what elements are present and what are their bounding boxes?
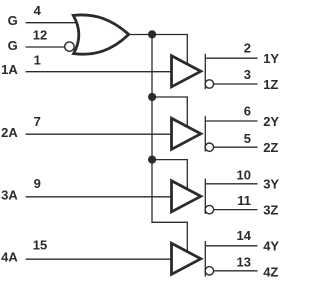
svg-text:3A: 3A: [1, 188, 18, 203]
svg-text:7: 7: [34, 114, 41, 129]
svg-text:G: G: [8, 13, 18, 28]
svg-text:5: 5: [244, 131, 251, 146]
svg-text:9: 9: [34, 176, 41, 191]
svg-text:1A: 1A: [1, 62, 18, 77]
svg-text:3Z: 3Z: [263, 203, 278, 218]
svg-text:13: 13: [237, 254, 251, 269]
svg-text:15: 15: [33, 237, 47, 252]
svg-text:11: 11: [237, 193, 251, 208]
svg-text:4Y: 4Y: [263, 239, 279, 254]
svg-text:12: 12: [33, 28, 47, 43]
svg-text:1: 1: [34, 53, 41, 68]
svg-text:2A: 2A: [1, 125, 18, 140]
svg-text:2: 2: [244, 41, 251, 56]
svg-text:3Y: 3Y: [263, 177, 279, 192]
svg-text:1Y: 1Y: [263, 51, 279, 66]
svg-text:14: 14: [237, 228, 252, 243]
svg-text:6: 6: [244, 104, 251, 119]
svg-text:4: 4: [34, 3, 42, 18]
svg-text:10: 10: [237, 168, 251, 183]
svg-text:3: 3: [244, 67, 251, 82]
svg-text:G: G: [8, 38, 18, 53]
svg-text:1Z: 1Z: [263, 77, 278, 92]
svg-text:2Z: 2Z: [263, 140, 278, 155]
svg-text:4A: 4A: [1, 250, 18, 265]
svg-text:4Z: 4Z: [263, 265, 278, 280]
svg-text:2Y: 2Y: [263, 114, 279, 129]
